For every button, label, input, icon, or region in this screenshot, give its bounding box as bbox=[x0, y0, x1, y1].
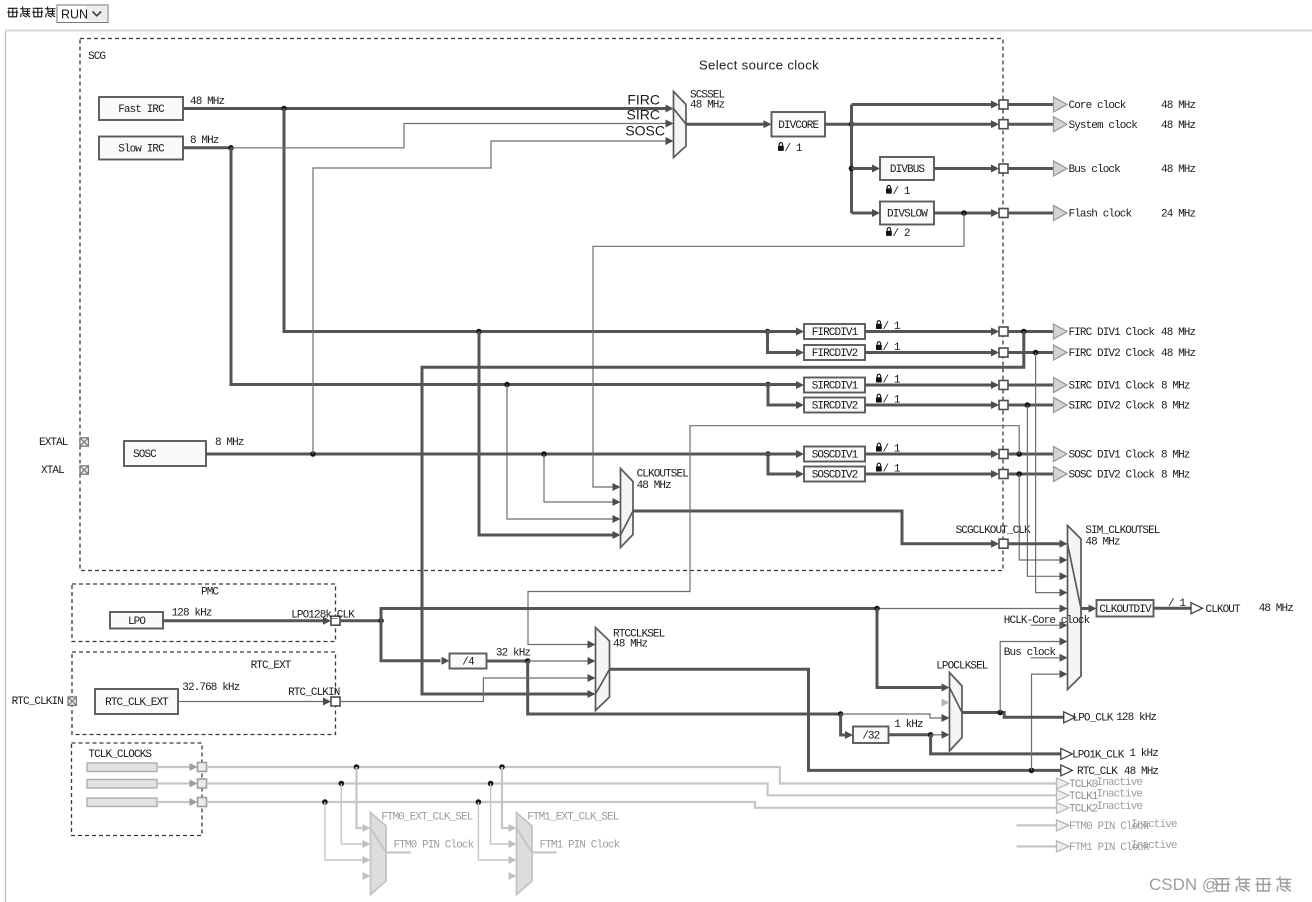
svg-text:SOSCDIV2: SOSCDIV2 bbox=[812, 470, 858, 482]
svg-text:24 MHz: 24 MHz bbox=[1161, 209, 1196, 221]
FTM0 mux input arrows bbox=[363, 824, 371, 832]
port SCGCLKOUT_CLK bbox=[991, 540, 999, 548]
svg-text:8 MHz: 8 MHz bbox=[1161, 381, 1190, 393]
svg-text:SOSC DIV1 Clock: SOSC DIV1 Clock bbox=[1069, 450, 1156, 462]
svg-text:Inactive: Inactive bbox=[1097, 801, 1143, 813]
svg-text:1 kHz: 1 kHz bbox=[894, 719, 923, 731]
RTCCLKSEL input arrows bbox=[588, 641, 596, 649]
svg-text:SCG: SCG bbox=[88, 51, 105, 63]
FTM1 mux input arrows bbox=[509, 824, 517, 832]
divider DIVSLOW bbox=[880, 202, 934, 225]
divider DIVCORE bbox=[772, 112, 826, 137]
svg-text:CLKOUT: CLKOUT bbox=[1206, 604, 1242, 616]
svg-text:48 MHz: 48 MHz bbox=[1085, 537, 1120, 549]
output arrow SIRC DIV2 Clock bbox=[1054, 398, 1068, 413]
SOSCDIV2 ratio lock / 1 bbox=[876, 463, 882, 471]
svg-text:EXTAL: EXTAL bbox=[39, 437, 68, 449]
svg-text:8 MHz: 8 MHz bbox=[190, 135, 219, 147]
svg-text:SOSC: SOSC bbox=[133, 449, 157, 461]
svg-text:/ 1: / 1 bbox=[893, 186, 911, 198]
svg-text:48 MHz: 48 MHz bbox=[1161, 100, 1196, 112]
DIVSLOW ratio lock / 2 bbox=[886, 228, 892, 236]
wire TCLK0 down to FTM0 input1 bbox=[357, 767, 365, 828]
output arrow TCLK0 bbox=[1057, 778, 1070, 789]
divider /4 bbox=[450, 654, 487, 669]
junction TCLK2-FTM1 bbox=[476, 799, 482, 805]
junction FIRC to CLKOUTSEL bbox=[476, 329, 482, 335]
port FIRCDIV1 bbox=[991, 328, 999, 336]
mux CLKOUTSEL bbox=[621, 469, 634, 548]
wire TCLK1 down to FTM0 input2 bbox=[341, 784, 364, 845]
wire branch to FIRCDIV2 bbox=[768, 332, 797, 353]
wire TCLK2 down to FTM1 input3 bbox=[478, 802, 510, 860]
svg-text:/ 1: / 1 bbox=[785, 143, 803, 155]
junction LPO_CLK tap bbox=[997, 710, 1003, 716]
svg-text:RTC_CLK_EXT: RTC_CLK_EXT bbox=[105, 697, 169, 709]
wire DIVCORE output bbox=[825, 123, 852, 126]
wire TCLK0 down to FTM1 input1 bbox=[502, 767, 511, 828]
wire to FIRC DIV2 Clock output bbox=[1008, 351, 1054, 354]
wire Fast IRC down to FIRCDIV row bbox=[284, 109, 760, 332]
oscillator RTC_CLK_EXT bbox=[95, 689, 178, 714]
wire TCLK1 down to FTM1 input2 bbox=[491, 784, 511, 845]
wire FIRC DIV2 down to SIM_CLKOUTSEL input4 bbox=[1036, 353, 1061, 593]
svg-text:TCLK_CLOCKS: TCLK_CLOCKS bbox=[88, 749, 152, 761]
svg-text:FTM0_EXT_CLK_SEL: FTM0_EXT_CLK_SEL bbox=[381, 811, 473, 823]
DIVCORE ratio lock / 1 bbox=[778, 143, 784, 151]
svg-text:TCLK1: TCLK1 bbox=[1069, 791, 1099, 803]
wire into FIRCDIV1 bbox=[760, 330, 797, 333]
svg-text:Inactive: Inactive bbox=[1131, 819, 1177, 831]
wire RTC_CLKIN to RTCCLKSEL input3 bbox=[340, 678, 589, 702]
wire bar2 to port bbox=[157, 801, 194, 803]
wire to FIRC DIV1 Clock output bbox=[1008, 330, 1054, 333]
wire bar1 to port bbox=[157, 782, 194, 784]
wire branch to SIRCDIV2 bbox=[768, 385, 797, 406]
oscillator LPO bbox=[110, 612, 163, 629]
wire SIRCDIV2 output to port bbox=[865, 404, 993, 407]
wire bar0 to port bbox=[157, 766, 194, 768]
output arrow Core clock bbox=[1054, 97, 1068, 112]
mux SCSSEL bbox=[674, 92, 687, 158]
wire Fast IRC 48MHz to SCSSEL FIRC input bbox=[183, 107, 667, 110]
mux RTCCLKSEL bbox=[596, 628, 610, 711]
mux SIM_CLKOUTSEL bbox=[1068, 526, 1082, 690]
output arrow System clock bbox=[1054, 117, 1068, 132]
output arrow FTM1 PIN Clock bbox=[1057, 841, 1070, 852]
output arrow FTM0 PIN Clock bbox=[1057, 820, 1070, 831]
output arrow TCLK2 bbox=[1057, 802, 1070, 813]
svg-text:LPO: LPO bbox=[128, 616, 146, 628]
svg-text:SOSCDIV1: SOSCDIV1 bbox=[812, 450, 859, 462]
output arrow SOSC DIV1 Clock bbox=[1054, 447, 1068, 462]
port SIRCDIV1 bbox=[991, 381, 999, 389]
wire to Flash clock output bbox=[1008, 212, 1054, 215]
svg-text:LPO1K_CLK: LPO1K_CLK bbox=[1072, 750, 1125, 762]
svg-text:TCLK0: TCLK0 bbox=[1069, 779, 1098, 791]
wire TCLK1 run bbox=[207, 784, 1057, 796]
junction 128k to LPOCLKSEL bbox=[874, 606, 880, 612]
junction TCLK0-FTM1 bbox=[499, 764, 505, 770]
wire FIRC DIV1 to RTCCLKSEL input4 bbox=[422, 332, 1024, 695]
wire FTM0 PIN Clock output stub bbox=[1017, 824, 1057, 826]
svg-text:32 kHz: 32 kHz bbox=[496, 647, 531, 659]
output arrow TCLK1 bbox=[1057, 790, 1070, 801]
wire /4 output bbox=[487, 660, 528, 663]
wire FTM1 PIN Clock output stub bbox=[1017, 845, 1057, 847]
svg-text:SIRC DIV1 Clock: SIRC DIV1 Clock bbox=[1069, 381, 1156, 393]
wire 1k to LPOCLKSEL input4 bbox=[931, 734, 943, 736]
output arrow SOSC DIV2 Clock bbox=[1054, 467, 1068, 482]
junction SIRC to CLKOUTSEL bbox=[504, 382, 510, 388]
wire SOSC down to CLKOUTSEL input2 bbox=[544, 454, 613, 502]
wire RTCCLKSEL output to RTC_CLK bbox=[610, 669, 1061, 770]
svg-text:RTC_CLKIN: RTC_CLKIN bbox=[12, 696, 64, 708]
wire Core clock row bbox=[852, 103, 994, 106]
svg-text:CLKOUTDIV: CLKOUTDIV bbox=[1099, 604, 1152, 616]
wire SIRC DIV2 down to SIM_CLKOUTSEL input3 bbox=[1027, 405, 1060, 576]
divider CLKOUTDIV bbox=[1097, 600, 1154, 617]
wire 32k to LPOCLKSEL input3 bbox=[841, 714, 943, 718]
wire FTM0 mux output bbox=[386, 851, 411, 853]
SCSSEL input arrows bbox=[666, 105, 674, 113]
port TCLK0 bbox=[190, 763, 198, 771]
wire SOSC output bbox=[206, 453, 760, 456]
RTC_EXT block dashed boundary bbox=[72, 652, 336, 735]
wire SCGCLKOUT to SIM input1 bbox=[1008, 542, 1061, 545]
port LPO128k_CLK bbox=[323, 617, 331, 625]
output arrow Bus clock bbox=[1054, 161, 1068, 176]
svg-text:DIVBUS: DIVBUS bbox=[890, 164, 926, 176]
svg-text:Fast IRC: Fast IRC bbox=[118, 104, 165, 116]
svg-text:SOSC DIV2 Clock: SOSC DIV2 Clock bbox=[1069, 470, 1156, 482]
wire TCLK2 down to FTM0 input3 bbox=[325, 802, 365, 860]
svg-text:FTM0 PIN Clock: FTM0 PIN Clock bbox=[394, 839, 475, 851]
wire SIRCDIV1 output to port bbox=[865, 384, 993, 387]
mux FTM0_EXT_CLK_SEL bbox=[371, 813, 387, 895]
wire DIVBUS output bbox=[934, 167, 993, 170]
svg-text:CSDN @: CSDN @ bbox=[1149, 875, 1219, 894]
SCG block dashed boundary bbox=[80, 39, 1003, 571]
DIVBUS ratio lock / 1 bbox=[886, 185, 892, 193]
svg-text:XTAL: XTAL bbox=[41, 465, 64, 477]
junction SIRCDIV split bbox=[765, 382, 771, 388]
port SOSCDIV2 bbox=[991, 470, 999, 478]
wire DIVSLOW output bbox=[934, 212, 993, 215]
svg-text:8 MHz: 8 MHz bbox=[215, 437, 244, 449]
SIM_CLKOUTSEL input arrows bbox=[1060, 540, 1068, 548]
port RTC_CLKIN bbox=[323, 698, 331, 706]
svg-text:48 MHz: 48 MHz bbox=[1161, 327, 1196, 339]
wire FIRCDIV1 output to port bbox=[865, 330, 993, 333]
wire SOSCDIV1 output to port bbox=[865, 453, 993, 456]
junction SOSC DIV2 tap bbox=[1016, 471, 1022, 477]
inactive source bar TCLK2 bbox=[87, 798, 157, 807]
wire core trunk vertical bbox=[850, 105, 853, 214]
svg-text:Slow IRC: Slow IRC bbox=[118, 144, 165, 156]
junction FIRC DIV1 tap bbox=[1021, 329, 1027, 335]
svg-text:48 MHz: 48 MHz bbox=[637, 480, 672, 492]
svg-text:/ 2: / 2 bbox=[893, 228, 910, 240]
junction TCLK0-FTM0 bbox=[354, 764, 360, 770]
svg-text:RUN: RUN bbox=[61, 7, 88, 21]
wire SOSC DIV1 to RTCCLKSEL input1 bbox=[528, 426, 1019, 645]
divider /32 bbox=[853, 727, 889, 744]
wire SOSC up to SCSSEL input3 bbox=[313, 141, 667, 454]
junction TCLK2-FTM0 bbox=[322, 799, 328, 805]
output arrow SIRC DIV1 Clock bbox=[1054, 378, 1068, 393]
wire to SOSC DIV1 Clock output bbox=[1008, 453, 1054, 456]
svg-text:TCLK2: TCLK2 bbox=[1069, 803, 1098, 815]
SOSCDIV1 ratio lock / 1 bbox=[876, 443, 882, 451]
svg-text:FIRCDIV1: FIRCDIV1 bbox=[812, 327, 859, 339]
divider SOSCDIV1 bbox=[804, 447, 865, 462]
CLKOUTSEL input arrows bbox=[613, 483, 621, 491]
PMC block dashed boundary bbox=[72, 584, 336, 642]
run-mode label 运行模式 bbox=[8, 8, 18, 17]
divider FIRCDIV1 bbox=[804, 324, 865, 339]
divider SIRCDIV2 bbox=[804, 398, 865, 413]
junction bus branch bbox=[849, 166, 855, 172]
svg-text:48 MHz: 48 MHz bbox=[613, 639, 648, 651]
SIRCDIV1 ratio lock / 1 bbox=[876, 374, 882, 382]
svg-text:/32: /32 bbox=[862, 730, 879, 742]
wire 128k down to LPOCLKSEL input1 bbox=[877, 609, 943, 688]
mux LPOCLKSEL bbox=[950, 673, 963, 752]
svg-text:8 MHz: 8 MHz bbox=[1161, 401, 1190, 413]
run-mode select RUN bbox=[57, 5, 108, 23]
junction DIVCORE out bbox=[849, 121, 855, 127]
output arrow FIRC DIV2 Clock bbox=[1054, 345, 1068, 360]
port FIRCDIV2 bbox=[991, 349, 999, 357]
svg-text:FTM1_EXT_CLK_SEL: FTM1_EXT_CLK_SEL bbox=[527, 811, 619, 823]
wire LPO128k down to /4 divider bbox=[381, 621, 441, 661]
LPOCLKSEL input arrows bbox=[942, 684, 950, 692]
output arrow Flash clock bbox=[1054, 206, 1068, 221]
inactive source bar TCLK0 bbox=[87, 763, 157, 772]
SIRCDIV2 ratio lock / 1 bbox=[876, 394, 882, 402]
wire SIM_CLKOUTSEL output to CLKOUTDIV bbox=[1081, 607, 1090, 610]
svg-text:128 kHz: 128 kHz bbox=[172, 607, 212, 619]
svg-text:48 MHz: 48 MHz bbox=[1259, 603, 1294, 615]
divider DIVBUS bbox=[880, 157, 934, 180]
junction SIRC DIV2 tap bbox=[1025, 402, 1031, 408]
wire System clock row bbox=[852, 123, 994, 126]
svg-text:/4: /4 bbox=[462, 657, 475, 669]
svg-text:FIRCDIV2: FIRCDIV2 bbox=[812, 348, 858, 360]
svg-text:8 MHz: 8 MHz bbox=[1161, 450, 1190, 462]
port System clock bbox=[991, 120, 999, 128]
svg-text:SIRC: SIRC bbox=[627, 107, 660, 123]
wire into DIVBUS bbox=[852, 167, 874, 170]
wire FIRC down to CLKOUTSEL input4 bbox=[479, 332, 613, 536]
svg-text:Select source clock: Select source clock bbox=[699, 57, 819, 72]
divider SIRCDIV1 bbox=[804, 378, 865, 393]
wire 1k down to LPO1K_CLK output bbox=[931, 735, 1061, 754]
wire branch to SOSCDIV2 bbox=[768, 454, 797, 474]
svg-text:Flash clock: Flash clock bbox=[1069, 209, 1133, 221]
wire to SIRC DIV2 Clock output bbox=[1008, 404, 1054, 407]
wire to SIRC DIV1 Clock output bbox=[1008, 384, 1054, 387]
svg-text:48 MHz: 48 MHz bbox=[1161, 164, 1196, 176]
svg-text:8 MHz: 8 MHz bbox=[1161, 470, 1190, 482]
svg-text:Inactive: Inactive bbox=[1097, 789, 1143, 801]
svg-text:48 MHz: 48 MHz bbox=[1161, 120, 1196, 132]
svg-text:LPOCLKSEL: LPOCLKSEL bbox=[936, 660, 988, 672]
junction TCLK1-FTM0 bbox=[339, 781, 345, 787]
svg-text:SIRC DIV2 Clock: SIRC DIV2 Clock bbox=[1069, 401, 1156, 413]
svg-text:SIRCDIV1: SIRCDIV1 bbox=[812, 381, 859, 393]
wire HCLK stub into SIM input6 bbox=[1031, 624, 1063, 626]
port SOSCDIV1 bbox=[991, 450, 999, 458]
junction DIVSLOW feedback bbox=[961, 210, 967, 216]
wire Slow IRC output bbox=[183, 146, 231, 149]
wire LPO_CLK up to SIM_CLKOUTSEL input7 bbox=[1000, 642, 1060, 713]
wire to Core clock output bbox=[1008, 103, 1054, 106]
junction Fast IRC branch bbox=[281, 106, 287, 112]
wire Slow IRC down to SIRCDIV row bbox=[231, 148, 760, 385]
junction SOSCDIV split bbox=[765, 451, 771, 457]
junction RTC_CLK tap bbox=[1029, 768, 1035, 774]
output arrow CLKOUT bbox=[1191, 603, 1203, 614]
junction FIRCDIV split bbox=[765, 329, 771, 335]
wire LPO to port bbox=[163, 619, 327, 622]
wire 32k down to 32k rail bbox=[528, 661, 841, 714]
svg-text:Inactive: Inactive bbox=[1097, 777, 1143, 789]
wire LPOCLKSEL output to LPO_CLK bbox=[962, 713, 1064, 718]
port TCLK1 bbox=[190, 780, 198, 788]
FIRCDIV1 ratio lock / 1 bbox=[876, 321, 882, 329]
wire 32k to RTCCLKSEL input2 bbox=[528, 660, 589, 662]
svg-text:32.768 kHz: 32.768 kHz bbox=[182, 682, 239, 694]
oscillator SOSC bbox=[124, 441, 206, 466]
wire CLKOUTDIV output to CLKOUT bbox=[1154, 607, 1192, 610]
wire LPO128k up to 128k rail bbox=[381, 609, 877, 621]
wire into DIVSLOW bbox=[852, 212, 874, 215]
port Core clock bbox=[991, 101, 999, 109]
FIRCDIV2 ratio lock / 1 bbox=[876, 342, 882, 350]
wire CLKOUTSEL output to SCGCLKOUT port bbox=[633, 511, 993, 544]
divider SOSCDIV2 bbox=[804, 467, 865, 482]
wire DIVSLOW feedback to CLKOUTSEL input1 bbox=[593, 213, 964, 487]
wire FIRCDIV2 output to port bbox=[865, 351, 993, 354]
junction 32k split bbox=[525, 658, 531, 664]
wire SOSC DIV2 down to SIM_CLKOUTSEL input2 bbox=[1019, 474, 1060, 560]
wire RTC_CLK up to SIM_CLKOUTSEL input9 bbox=[1032, 674, 1061, 770]
port TCLK2 bbox=[190, 798, 198, 806]
junction FIRC DIV2 tap bbox=[1033, 350, 1039, 356]
wire to Bus clock output bbox=[1008, 167, 1054, 170]
junction SOSC to CLKOUTSEL bbox=[541, 451, 547, 457]
svg-text:CLKOUTSEL: CLKOUTSEL bbox=[637, 468, 689, 480]
svg-text:RTC_EXT: RTC_EXT bbox=[251, 660, 292, 672]
junction Slow IRC branch bbox=[228, 145, 234, 151]
wire SOSCDIV2 output to port bbox=[865, 473, 993, 476]
svg-text:48 MHz: 48 MHz bbox=[1161, 348, 1196, 360]
svg-text:Core clock: Core clock bbox=[1069, 100, 1127, 112]
svg-text:RTC_CLKIN: RTC_CLKIN bbox=[288, 687, 340, 699]
junction 32k to /32 bbox=[838, 711, 844, 717]
svg-text:FIRC DIV1 Clock: FIRC DIV1 Clock bbox=[1069, 327, 1156, 339]
diagram container border bbox=[5, 31, 7, 902]
svg-text:LPO_CLK: LPO_CLK bbox=[1073, 713, 1114, 725]
oscillator Fast IRC bbox=[99, 97, 183, 120]
wire into SIRCDIV1 bbox=[760, 383, 797, 386]
oscillator Slow IRC bbox=[99, 137, 183, 160]
svg-text:SOSC: SOSC bbox=[625, 123, 665, 139]
wire 32k down into /32 divider bbox=[841, 714, 846, 735]
svg-text:DIVSLOW: DIVSLOW bbox=[887, 209, 928, 221]
wire Bus clock stub into SIM input8 bbox=[1031, 657, 1063, 659]
wire SCSSEL output to DIVCORE bbox=[686, 123, 765, 126]
svg-text:FTM1 PIN Clock: FTM1 PIN Clock bbox=[540, 839, 621, 851]
mux FTM1_EXT_CLK_SEL bbox=[517, 813, 533, 895]
port Bus clock bbox=[991, 165, 999, 173]
output arrow FIRC DIV1 Clock bbox=[1054, 324, 1068, 339]
svg-text:System clock: System clock bbox=[1069, 120, 1139, 132]
svg-text:48 MHz: 48 MHz bbox=[190, 96, 225, 108]
output arrow LPO_CLK bbox=[1064, 712, 1076, 723]
svg-text:PMC: PMC bbox=[201, 586, 219, 598]
port Flash clock bbox=[991, 209, 999, 217]
svg-text:1 kHz: 1 kHz bbox=[1129, 748, 1158, 760]
wire SIRC to SCSSEL input2 bbox=[231, 124, 667, 148]
svg-text:FIRC DIV2 Clock: FIRC DIV2 Clock bbox=[1069, 348, 1156, 360]
svg-text:SIRCDIV2: SIRCDIV2 bbox=[812, 401, 858, 413]
inactive source bar TCLK1 bbox=[87, 780, 157, 789]
wire TCLK0 run bbox=[207, 767, 1057, 784]
svg-text:48 MHz: 48 MHz bbox=[690, 100, 725, 112]
wire to SOSC DIV2 Clock output bbox=[1008, 473, 1054, 476]
svg-text:SIM_CLKOUTSEL: SIM_CLKOUTSEL bbox=[1085, 525, 1159, 537]
wire /32 output bbox=[889, 733, 931, 736]
wire to System clock output bbox=[1008, 123, 1054, 126]
junction 1k split bbox=[928, 732, 934, 738]
svg-text:Inactive: Inactive bbox=[1131, 840, 1177, 852]
TCLK_CLOCKS block dashed boundary bbox=[72, 743, 203, 836]
wire into SOSCDIV1 bbox=[760, 453, 797, 456]
wire SIRC down to CLKOUTSEL input3 bbox=[507, 385, 613, 520]
output arrow RTC_CLK bbox=[1061, 765, 1073, 776]
junction LPO128k split bbox=[378, 618, 384, 624]
svg-text:128 kHz: 128 kHz bbox=[1116, 712, 1156, 724]
wire FTM1 mux output bbox=[532, 851, 557, 853]
junction TCLK1-FTM1 bbox=[488, 781, 494, 787]
wire TCLK2 run bbox=[207, 802, 1057, 808]
wire LPO128k trunk bbox=[340, 619, 382, 622]
wire 128k rail thin to SIM_CLKOUTSEL input5 bbox=[877, 608, 1061, 610]
port SIRCDIV2 bbox=[991, 401, 999, 409]
svg-text:Bus clock: Bus clock bbox=[1069, 164, 1122, 176]
wire RTC_CLK_EXT to port bbox=[178, 701, 327, 703]
junction SOSC DIV1 tap bbox=[1016, 451, 1022, 457]
output arrow LPO1K_CLK bbox=[1061, 748, 1073, 759]
svg-text:FIRC: FIRC bbox=[627, 91, 660, 107]
svg-text:DIVCORE: DIVCORE bbox=[778, 120, 819, 132]
junction SOSC riser bbox=[310, 451, 316, 457]
divider FIRCDIV2 bbox=[804, 345, 865, 360]
